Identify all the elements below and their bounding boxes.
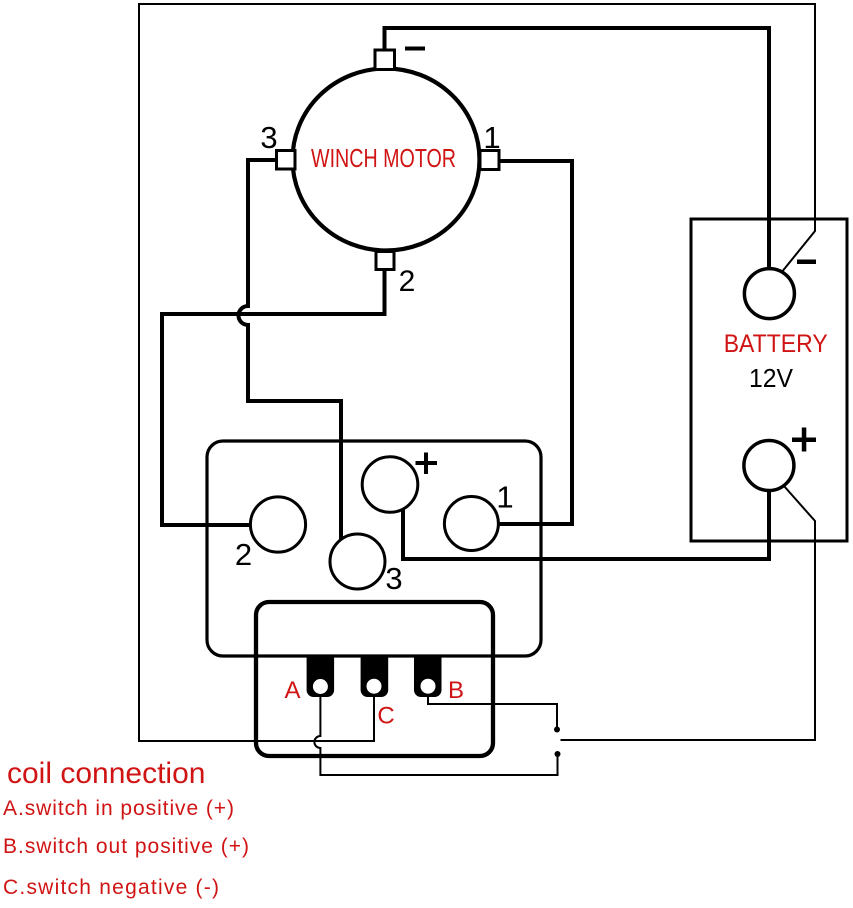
svg-text:3: 3 [385,561,402,596]
svg-text:B.switch out positive (+): B.switch out positive (+) [3,835,249,858]
svg-text:B: B [448,677,464,704]
svg-text:3: 3 [260,120,277,155]
svg-text:1: 1 [496,480,513,515]
svg-text:A.switch in positive (+): A.switch in positive (+) [3,797,234,820]
svg-text:12V: 12V [749,363,794,393]
svg-text:1: 1 [483,120,500,155]
svg-text:A: A [284,677,300,704]
svg-text:BATTERY: BATTERY [724,330,828,358]
svg-text:2: 2 [235,537,252,572]
svg-text:coil connection: coil connection [7,757,205,790]
svg-text:C: C [377,703,394,730]
svg-text:2: 2 [399,265,416,298]
svg-text:WINCH MOTOR: WINCH MOTOR [311,143,456,173]
